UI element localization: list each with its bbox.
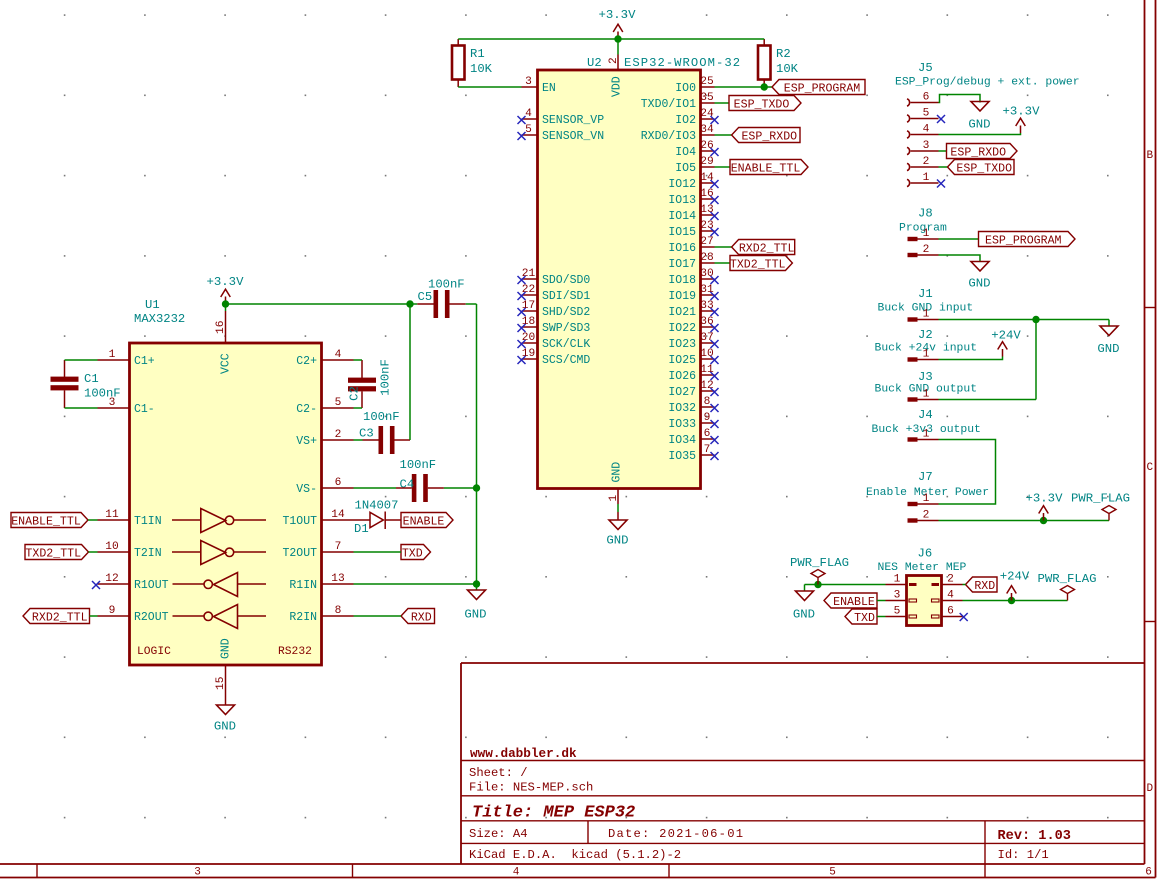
svg-text:J6: J6	[918, 547, 933, 561]
svg-text:1: 1	[923, 493, 930, 505]
svg-text:TXD: TXD	[402, 548, 423, 561]
svg-text:5: 5	[335, 397, 342, 409]
svg-text:U1: U1	[145, 298, 160, 312]
svg-text:IO26: IO26	[668, 370, 696, 383]
J6 pin 5	[909, 615, 917, 618]
U2 pin 6 IO34	[701, 438, 715, 440]
svg-text:IO34: IO34	[668, 434, 696, 447]
no-connect U1 R1OUT	[92, 581, 100, 589]
svg-text:RXD2_TTL: RXD2_TTL	[739, 243, 795, 256]
svg-text:RXD: RXD	[974, 580, 995, 593]
svg-text:IO16: IO16	[668, 242, 696, 255]
U2 pin 37 IO23	[701, 342, 715, 344]
svg-text:3: 3	[194, 867, 201, 879]
ground GND at J1	[1108, 320, 1110, 327]
svg-text:TXD2_TTL: TXD2_TTL	[25, 548, 81, 561]
svg-text:16: 16	[215, 321, 227, 334]
wire C5 to right rail	[450, 303, 466, 305]
svg-text:100nF: 100nF	[379, 359, 393, 396]
U2 pin 21 SDO/SD0	[522, 278, 538, 280]
svg-text:GND: GND	[606, 534, 628, 548]
U2 pin 1 GND	[617, 489, 619, 505]
svg-text:SDI/SD1: SDI/SD1	[542, 290, 590, 303]
global label RXD2_TTL at U2	[732, 240, 795, 255]
svg-text:6: 6	[335, 477, 342, 489]
capacitor C1	[51, 377, 79, 382]
svg-text:1: 1	[923, 309, 930, 321]
U2 pin 28 IO17	[701, 262, 715, 264]
svg-text:13: 13	[331, 573, 344, 585]
global label RXD at J6	[966, 577, 998, 592]
svg-text:IO18: IO18	[668, 274, 696, 287]
svg-text:File: NES-MEP.sch: File: NES-MEP.sch	[469, 781, 593, 795]
svg-text:R2: R2	[776, 47, 791, 61]
svg-text:8: 8	[704, 396, 711, 408]
svg-text:C2+: C2+	[296, 355, 317, 368]
svg-text:U2: U2	[587, 56, 602, 70]
global label ESP_RXDO at J5	[947, 144, 1018, 159]
svg-text:R1IN: R1IN	[289, 579, 317, 592]
global label ENABLE at J6	[824, 593, 877, 608]
svg-text:IO15: IO15	[668, 226, 696, 239]
svg-text:TXD2_TTL: TXD2_TTL	[730, 259, 786, 272]
wire J6 pin1 to GND and PWR_FLAG	[805, 584, 886, 586]
junction at C4 right	[473, 484, 480, 491]
svg-text:R2IN: R2IN	[289, 611, 317, 624]
svg-text:RS232: RS232	[278, 646, 312, 658]
power flag PWR_FLAG at J6 pin4	[1061, 586, 1075, 601]
wire J4 to J7	[939, 440, 996, 505]
wire U1 VS- to C4	[354, 487, 397, 489]
svg-text:TXD0/IO1: TXD0/IO1	[641, 98, 696, 111]
svg-text:Sheet: /: Sheet: /	[469, 766, 528, 780]
svg-text:J3: J3	[918, 370, 933, 384]
svg-text:IO32: IO32	[668, 402, 696, 415]
wire RXD2_TTL to U1 R2OUT	[90, 615, 98, 617]
svg-text:IO14: IO14	[668, 210, 696, 223]
resistor R2	[758, 46, 771, 80]
global label TXD at U1	[401, 545, 431, 560]
wire J6 pin4 to +24V and PWR_FLAG	[963, 600, 1068, 602]
J6 pin 3	[909, 599, 917, 602]
svg-text:T1IN: T1IN	[134, 515, 162, 528]
svg-text:IO22: IO22	[668, 322, 696, 335]
svg-text:IO33: IO33	[668, 418, 696, 431]
capacitor C5	[434, 290, 439, 318]
U2 pin 11 IO26	[701, 374, 715, 376]
J5 pin 2	[907, 163, 910, 170]
ground GND below U2	[617, 512, 619, 520]
global label ENABLE_TTL at U2	[730, 160, 808, 175]
U2 pin 3 EN	[522, 86, 538, 88]
U1 pin 16 VCC	[225, 311, 227, 343]
svg-text:+24V: +24V	[991, 329, 1021, 343]
svg-text:LOGIC: LOGIC	[137, 646, 171, 658]
svg-text:7: 7	[704, 444, 711, 456]
global label RXD at U1	[401, 609, 435, 624]
svg-text:6: 6	[947, 606, 954, 618]
U2 pin 8 IO32	[701, 406, 715, 408]
wire U2 IO1 to ESP_TXDO	[715, 102, 730, 104]
wire J8 pin1 to ESP_PROGRAM	[939, 238, 979, 240]
no-connect IO26	[711, 372, 719, 380]
wire right vertical rail	[476, 304, 478, 584]
global label ESP_PROGRAM at U2	[772, 80, 865, 95]
no-connect SENSOR_VP	[518, 116, 526, 124]
svg-text:C2: C2	[348, 386, 362, 401]
svg-text:T2IN: T2IN	[134, 547, 162, 560]
svg-text:GND: GND	[1097, 342, 1119, 356]
no-connect IO35	[711, 452, 719, 460]
svg-text:J8: J8	[918, 207, 933, 221]
U1 T1 inverter	[201, 509, 226, 533]
svg-text:GND: GND	[464, 608, 486, 622]
U1 pin 12 R1OUT	[98, 583, 130, 585]
U2 pin 29 IO5	[701, 166, 715, 168]
no-connect IO22	[711, 324, 719, 332]
svg-text:SWP/SD3: SWP/SD3	[542, 322, 590, 335]
wire C4 to right rail	[428, 487, 444, 489]
wire buck gnd vertical	[1035, 320, 1037, 400]
no-connect IO18	[711, 276, 719, 284]
power +3.3V above U1	[221, 289, 231, 304]
U1 pin 6 VS-	[322, 487, 354, 489]
svg-text:J5: J5	[918, 61, 933, 75]
svg-text:10K: 10K	[776, 62, 799, 76]
svg-text:EN: EN	[542, 82, 556, 95]
J5 pin 1	[907, 179, 910, 186]
U2 pin 19 SCS/CMD	[522, 358, 538, 360]
power +24V at J2	[998, 342, 1008, 357]
wire U1 VS+ to C3	[354, 439, 363, 441]
svg-text:Date: 2021-06-01: Date: 2021-06-01	[608, 827, 744, 841]
diode D1 1N4007	[354, 519, 371, 521]
svg-text:T1OUT: T1OUT	[282, 515, 317, 528]
power +3.3V at J5	[1016, 118, 1026, 133]
svg-text:J1: J1	[918, 287, 933, 301]
no-connect SDO/SD0	[518, 276, 526, 284]
U2 pin 26 IO4	[701, 150, 715, 152]
J6 pin 2	[932, 583, 940, 586]
J8 pin 2	[908, 253, 918, 257]
U1 pin 13 R1IN	[322, 583, 354, 585]
svg-text:ESP_PROGRAM: ESP_PROGRAM	[784, 83, 861, 96]
svg-text:1N4007: 1N4007	[355, 499, 399, 513]
U1 pin 1 C1+	[98, 359, 130, 361]
wire vertical C3 to top rail	[409, 304, 411, 440]
svg-text:SENSOR_VP: SENSOR_VP	[542, 114, 604, 127]
svg-text:+3.3V: +3.3V	[1026, 492, 1064, 506]
svg-text:IO4: IO4	[675, 146, 696, 159]
svg-text:Id: 1/1: Id: 1/1	[998, 848, 1049, 862]
no-connect SCS/CMD	[518, 356, 526, 364]
svg-text:IO23: IO23	[668, 338, 696, 351]
J8 pin 1	[908, 237, 918, 241]
wire J2 to +24V	[939, 357, 1003, 360]
power flag PWR_FLAG at J6 pin1	[811, 570, 825, 585]
IC U2 ESP32-WROOM-32 body	[538, 70, 701, 489]
svg-text:1: 1	[923, 429, 930, 441]
svg-text:SDO/SD0: SDO/SD0	[542, 274, 590, 287]
no-connect IO2	[711, 116, 719, 124]
svg-text:12: 12	[105, 573, 118, 585]
svg-text:3: 3	[923, 140, 930, 152]
wire J6 pin2 to RXD	[963, 584, 966, 586]
svg-text:35: 35	[700, 92, 713, 104]
U2 pin 2 VDD	[617, 55, 619, 71]
svg-text:11: 11	[105, 509, 119, 521]
svg-text:MAX3232: MAX3232	[134, 312, 185, 326]
svg-text:4: 4	[947, 590, 954, 602]
svg-text:R1: R1	[470, 47, 485, 61]
svg-text:GND: GND	[214, 720, 236, 734]
no-connect IO27	[711, 388, 719, 396]
svg-text:GND: GND	[793, 608, 815, 622]
no-connect SHD/SD2	[518, 308, 526, 316]
svg-text:GND: GND	[220, 638, 233, 659]
svg-text:ESP_RXDO: ESP_RXDO	[950, 147, 1006, 160]
svg-text:PWR_FLAG: PWR_FLAG	[790, 556, 849, 570]
U2 pin 7 IO35	[701, 454, 715, 456]
svg-text:IO19: IO19	[668, 290, 696, 303]
wire TXD to J6 pin5	[877, 616, 886, 618]
svg-text:10K: 10K	[470, 62, 493, 76]
ground GND below U1	[225, 697, 227, 705]
svg-text:2: 2	[923, 156, 930, 168]
U2 pin 5 SENSOR_VN	[522, 134, 538, 136]
IC U1 MAX3232 body	[130, 343, 322, 665]
junction at R2 IO0	[761, 83, 768, 90]
wire J3 to buck gnd	[939, 399, 1037, 401]
U2 pin 17 SHD/SD2	[522, 310, 538, 312]
svg-text:C4: C4	[400, 478, 415, 492]
wire J5 pin3 to ESP_RXDO	[939, 150, 947, 152]
junction at U2 VDD	[614, 35, 621, 42]
svg-text:VCC: VCC	[220, 353, 233, 374]
U2 pin 24 IO2	[701, 118, 715, 120]
wire U2 IO0 to ESP_PROGRAM	[715, 86, 773, 88]
svg-text:C: C	[1146, 462, 1153, 474]
svg-text:C5: C5	[418, 290, 433, 304]
svg-text:1: 1	[608, 495, 620, 502]
J5 pin 4	[907, 131, 910, 138]
svg-text:IO5: IO5	[675, 162, 696, 175]
wire J5 pin2 to ESP_TXDO	[939, 166, 948, 168]
wire U2 IO17 to TXD2_TTL	[715, 262, 731, 264]
svg-text:GND: GND	[611, 462, 624, 483]
svg-text:2: 2	[335, 429, 342, 441]
U2 pin 35 TXD0/IO1	[701, 102, 715, 104]
U2 pin 10 IO25	[701, 358, 715, 360]
wire TXD2_TTL to U1 T2IN	[89, 551, 98, 553]
U2 pin 33 IO21	[701, 310, 715, 312]
svg-text:7: 7	[335, 541, 342, 553]
svg-text:25: 25	[700, 76, 713, 88]
svg-text:9: 9	[704, 412, 711, 424]
wire C1 top to U1 pin1	[65, 359, 98, 361]
svg-text:T2OUT: T2OUT	[282, 547, 317, 560]
wire U1 pin4 to C2	[354, 359, 363, 361]
svg-text:C1-: C1-	[134, 403, 155, 416]
svg-text:14: 14	[331, 509, 345, 521]
no-connect SENSOR_VN	[518, 132, 526, 140]
svg-text:2: 2	[923, 510, 930, 522]
wire C2 to U1 pin5	[354, 407, 363, 409]
U2 pin 25 IO0	[701, 86, 715, 88]
svg-text:R2OUT: R2OUT	[134, 611, 169, 624]
svg-text:29: 29	[700, 156, 713, 168]
U2 pin 20 SCK/CLK	[522, 342, 538, 344]
global label ESP_PROGRAM at J8	[979, 232, 1076, 247]
svg-text:Rev: 1.03: Rev: 1.03	[998, 829, 1071, 844]
wire R1 to U2 EN	[458, 86, 521, 88]
svg-text:VS+: VS+	[296, 435, 317, 448]
svg-text:IO17: IO17	[668, 258, 696, 271]
wire U1 R1IN to GND rail	[354, 583, 477, 585]
wire top +3.3V rail	[458, 38, 764, 40]
svg-text:RXD0/IO3: RXD0/IO3	[641, 130, 696, 143]
svg-text:100nF: 100nF	[400, 458, 437, 472]
no-connect SDI/SD1	[518, 292, 526, 300]
svg-text:ENABLE_TTL: ENABLE_TTL	[731, 163, 801, 176]
no-connect IO4	[711, 148, 719, 156]
capacitor C4	[412, 474, 417, 502]
svg-text:IO27: IO27	[668, 386, 696, 399]
svg-text:28: 28	[700, 252, 713, 264]
svg-text:R1OUT: R1OUT	[134, 579, 169, 592]
wire J5 pin6 to GND	[939, 95, 981, 103]
svg-text:www.dabbler.dk: www.dabbler.dk	[470, 746, 577, 761]
svg-text:ENABLE: ENABLE	[833, 596, 875, 609]
wire ENABLE_TTL to U1 T1IN	[88, 519, 98, 521]
svg-text:C1: C1	[84, 372, 99, 386]
svg-text:1: 1	[923, 349, 930, 361]
J6 pin 4	[932, 599, 940, 602]
capacitor C3	[379, 426, 384, 454]
svg-text:IO35: IO35	[668, 450, 696, 463]
svg-text:1: 1	[109, 349, 116, 361]
svg-text:4: 4	[923, 124, 930, 136]
no-connect J5 pin5	[937, 115, 945, 123]
U1 pin 9 R2OUT	[98, 615, 130, 617]
resistor R1	[452, 46, 465, 80]
svg-text:8: 8	[335, 605, 342, 617]
power flag PWR_FLAG at J7	[1102, 506, 1116, 521]
svg-text:VS-: VS-	[296, 483, 317, 496]
no-connect IO33	[711, 420, 719, 428]
U1 T2 inverter	[201, 541, 226, 565]
U1 R1 receiver	[214, 573, 238, 597]
no-connect IO15	[711, 228, 719, 236]
no-connect IO21	[711, 308, 719, 316]
U2 pin 22 SDI/SD1	[522, 294, 538, 296]
capacitor C2	[348, 378, 376, 383]
junction at J7	[1040, 517, 1047, 524]
svg-text:+24V: +24V	[1000, 570, 1030, 584]
svg-text:100nF: 100nF	[363, 410, 400, 424]
no-connect IO23	[711, 340, 719, 348]
svg-text:J4: J4	[918, 408, 933, 422]
wire C1 bottom to U1 pin3	[65, 407, 98, 409]
svg-text:KiCad E.D.A. kicad (5.1.2)-2: KiCad E.D.A. kicad (5.1.2)-2	[469, 848, 681, 862]
no-connect SCK/CLK	[518, 340, 526, 348]
svg-text:B: B	[1146, 150, 1153, 162]
ground GND at J5	[971, 102, 989, 112]
svg-text:100nF: 100nF	[428, 278, 465, 292]
no-connect IO19	[711, 292, 719, 300]
svg-text:IO12: IO12	[668, 178, 696, 191]
svg-text:1: 1	[923, 228, 930, 240]
svg-text:C1+: C1+	[134, 355, 155, 368]
svg-text:D1: D1	[354, 522, 369, 536]
svg-text:+3.3V: +3.3V	[599, 8, 637, 22]
U2 pin 4 SENSOR_VP	[522, 118, 538, 120]
svg-text:VDD: VDD	[611, 76, 624, 97]
wire C3 to vertical	[395, 439, 411, 441]
ground GND at J6	[804, 585, 806, 592]
svg-text:3: 3	[894, 590, 901, 602]
U1 pin 2 VS+	[322, 439, 354, 441]
svg-text:ESP_TXDO: ESP_TXDO	[956, 163, 1012, 176]
svg-text:+3.3V: +3.3V	[207, 275, 245, 289]
U1 pin 14 T1OUT	[322, 519, 354, 521]
global label ESP_TXDO at J5	[948, 160, 1015, 175]
J6 pin 1	[909, 583, 917, 586]
global label TXD at J6	[845, 609, 877, 624]
wire U2 IO16 to RXD2_TTL	[715, 246, 732, 248]
U1 pin 10 T2IN	[98, 551, 130, 553]
wire U1 T2OUT to TXD	[354, 551, 402, 553]
junction at R1IN	[473, 580, 480, 587]
svg-text:GND: GND	[968, 277, 990, 291]
U2 pin 34 RXD0/IO3	[701, 134, 715, 136]
junction at J6 pin4	[1008, 597, 1015, 604]
svg-text:1: 1	[894, 574, 901, 586]
svg-text:Size: A4: Size: A4	[469, 827, 528, 841]
no-connect IO32	[711, 404, 719, 412]
title block	[460, 663, 462, 864]
svg-text:IO2: IO2	[675, 114, 696, 127]
U1 pin 11 T1IN	[98, 519, 130, 521]
svg-text:9: 9	[109, 605, 116, 617]
svg-text:NES Meter MEP: NES Meter MEP	[878, 562, 967, 574]
U2 pin 14 IO12	[701, 182, 715, 184]
svg-text:D: D	[1146, 783, 1153, 795]
svg-text:15: 15	[215, 677, 227, 690]
no-connect IO14	[711, 212, 719, 220]
svg-text:6: 6	[923, 92, 930, 104]
U2 pin 27 IO16	[701, 246, 715, 248]
no-connect J5 pin1	[937, 180, 945, 188]
no-connect IO25	[711, 356, 719, 364]
svg-text:C2-: C2-	[296, 403, 317, 416]
J5 pin 6	[907, 99, 910, 106]
svg-text:5: 5	[923, 108, 930, 120]
wire +3.3V to U2 VDD	[617, 39, 619, 55]
global label RXD2_TTL at U1	[23, 609, 90, 624]
U1 pin 5 C2-	[322, 407, 354, 409]
junction at U1 VCC	[222, 300, 229, 307]
wire U1 VCC to +3.3V	[225, 304, 227, 311]
svg-text:5: 5	[829, 867, 836, 879]
svg-text:ESP_Prog/debug + ext. power: ESP_Prog/debug + ext. power	[895, 77, 1080, 89]
svg-text:ENABLE: ENABLE	[403, 516, 445, 529]
svg-text:5: 5	[894, 606, 901, 618]
svg-text:PWR_FLAG: PWR_FLAG	[1071, 492, 1130, 506]
power +24V at J6	[1007, 586, 1017, 601]
global label ESP_RXDO at U2	[732, 128, 800, 143]
U2 pin 16 IO13	[701, 198, 715, 200]
